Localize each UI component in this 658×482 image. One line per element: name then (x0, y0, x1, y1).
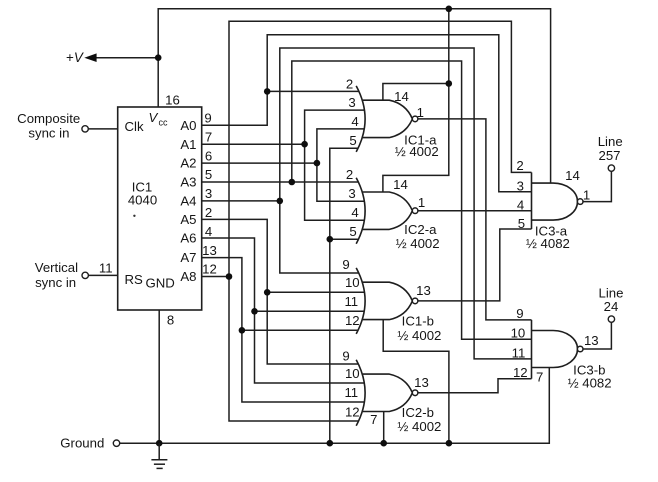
svg-text:7: 7 (370, 412, 377, 427)
ground symbol (151, 443, 167, 468)
svg-text:5: 5 (205, 167, 212, 182)
AND gate IC3-a (532, 183, 578, 220)
svg-text:½ 4002: ½ 4002 (397, 328, 441, 343)
svg-text:GND: GND (145, 276, 174, 291)
svg-text:3: 3 (205, 186, 212, 201)
svg-text:10: 10 (345, 275, 360, 290)
op-amp U: NOR gate IC1-a (356, 86, 365, 152)
wire +V rail: Vcc pin 16 riser, top rail, drop to IC3-a pin 14 (158, 9, 550, 183)
wire net A2: pin 6 to riser (202, 162, 317, 164)
svg-text:14: 14 (393, 177, 408, 192)
AND gate IC3-b (532, 331, 578, 368)
svg-text:A5: A5 (180, 212, 196, 227)
svg-text:A2: A2 (180, 156, 196, 171)
wire net A8: riser to rail, drop to IC3-a input 2; drop to IC2-b input 12 (229, 21, 532, 421)
wire net A7 branch to IC1-b input 12 (242, 329, 359, 331)
svg-text:2: 2 (346, 167, 353, 182)
terminal Ground (113, 440, 119, 446)
svg-text:V: V (149, 110, 159, 125)
svg-text:3: 3 (348, 95, 355, 110)
svg-text:257: 257 (598, 148, 620, 163)
svg-text:5: 5 (349, 224, 356, 239)
wire IC3-b output pin 13 to Line 24 terminal (583, 322, 611, 349)
svg-text:RS: RS (125, 272, 144, 287)
svg-text:4: 4 (205, 224, 212, 239)
svg-text:1: 1 (418, 195, 425, 210)
node junction VDD at IC1-a pin 14 (446, 80, 453, 87)
svg-text:6: 6 (205, 148, 212, 163)
svg-text:14: 14 (565, 168, 580, 183)
svg-text:Line: Line (598, 134, 623, 149)
svg-text:3: 3 (517, 178, 524, 193)
svg-text:5: 5 (518, 216, 525, 231)
wire net A5: pin 2, drop to IC2-b input 9 (202, 219, 359, 364)
svg-text:IC2-a: IC2-a (404, 222, 437, 237)
svg-text:A3: A3 (180, 175, 196, 190)
node junction ground bus / IC2-b pin 7 (380, 440, 387, 447)
svg-text:1: 1 (583, 188, 590, 203)
svg-text:13: 13 (584, 333, 599, 348)
node junction A1 (301, 141, 308, 148)
svg-text:12: 12 (345, 313, 360, 328)
svg-text:4: 4 (351, 205, 358, 220)
svg-text:2: 2 (346, 76, 353, 91)
svg-text:+V: +V (66, 50, 84, 65)
svg-text:3: 3 (348, 186, 355, 201)
svg-text:1: 1 (417, 105, 424, 120)
terminal Vertical sync in (82, 272, 88, 278)
svg-text:7: 7 (205, 129, 212, 144)
svg-text:8: 8 (167, 313, 174, 328)
wire net A3 riser, rail, drop to IC3-b input 10 (292, 61, 532, 339)
wire IC1-a pin 14 stub (383, 84, 449, 101)
wire net A4: pin 3 (202, 200, 280, 202)
svg-text:Composite: Composite (17, 111, 80, 126)
wire IC1-b pin 7 ground stub (383, 320, 449, 444)
wire Composite sync in to Clk (88, 128, 117, 130)
svg-text:Ground: Ground (60, 435, 104, 450)
wire net A1 riser: IC1-a input 3 down to IC2-a input 4 (305, 110, 365, 220)
svg-text:12: 12 (202, 262, 217, 277)
svg-text:16: 16 (165, 93, 180, 108)
svg-text:4: 4 (517, 198, 524, 213)
node junction A2 (314, 160, 321, 167)
svg-text:13: 13 (416, 283, 431, 298)
svg-text:9: 9 (342, 257, 349, 272)
wire net A4 riser, rail, drop to IC3-b input 11 (280, 48, 532, 359)
svg-text:A0: A0 (180, 118, 196, 133)
wire net A1: pin 7 to riser (202, 143, 305, 145)
wire net A0: pin 9, riser, rail, drop to IC3-a input 3 (202, 35, 532, 192)
node junction A8 (226, 273, 233, 280)
wire IC3-a output pin 1 to Line 257 terminal (583, 171, 611, 201)
wire net A2 riser: IC1-a input 4 down to IC2-a input 3 (317, 129, 365, 201)
terminal Line 24 (608, 316, 614, 322)
wire IC1 GND pin 8 stub (158, 310, 160, 443)
svg-text:A6: A6 (180, 231, 196, 246)
svg-text:13: 13 (202, 243, 217, 258)
wire net A6 branch to IC1-b input 11 (255, 310, 365, 312)
svg-text:½ 4002: ½ 4002 (396, 236, 440, 251)
wire net A8: pin 12 (202, 276, 229, 278)
wire +V arrow lead (93, 57, 158, 59)
node junction VDD at top rail (446, 6, 453, 13)
wire IC1-a output pin 1 to IC3-b input 9 (418, 119, 532, 320)
svg-text:9: 9 (204, 110, 211, 125)
svg-text:IC1-b: IC1-b (402, 314, 434, 329)
wire net A7: pin 13, drop to IC2-b input 11 (202, 258, 365, 402)
NOR gate IC2-a (356, 178, 365, 244)
svg-text:11: 11 (512, 346, 526, 361)
node junction A7 (239, 327, 246, 334)
svg-text:11: 11 (99, 261, 113, 276)
stray scan speck (133, 215, 135, 217)
NOR gate IC1-b (356, 268, 365, 334)
wire ground riser to IC1-a input 5 (330, 148, 359, 443)
svg-text:½ 4002: ½ 4002 (395, 144, 439, 159)
node junction ground bus / input-5 riser (327, 440, 334, 447)
wire net A0 branch to IC1-a input 2 (267, 90, 358, 92)
svg-text:12: 12 (513, 365, 528, 380)
node junction ground / IC2-a input 5 (327, 236, 334, 243)
wire net A5 branch to IC1-b input 10 (267, 291, 364, 293)
svg-text:12: 12 (345, 404, 360, 419)
node junction A4 (277, 198, 284, 205)
svg-text:2: 2 (516, 158, 523, 173)
svg-text:½ 4002: ½ 4002 (397, 419, 441, 434)
wire IC1-b output pin 13 to IC3-a input 5 (418, 229, 532, 301)
svg-text:A1: A1 (180, 137, 196, 152)
wire net A4 branch down to IC1-b input 9 (280, 201, 359, 273)
svg-text:Vertical: Vertical (35, 260, 78, 275)
svg-text:sync in: sync in (28, 125, 69, 140)
node +V tap junction (155, 54, 162, 61)
svg-text:A7: A7 (180, 250, 196, 265)
node junction ground bus / IC1-b pin 7 (446, 440, 453, 447)
node junction A0 / IC1-a input 2 (264, 88, 271, 95)
wire ground branch to IC2-a input 5 (330, 238, 359, 240)
svg-text:A8: A8 (180, 269, 196, 284)
svg-text:14: 14 (394, 89, 409, 104)
svg-text:9: 9 (516, 306, 523, 321)
svg-text:½ 4082: ½ 4082 (526, 236, 570, 251)
NOR gate IC2-b (356, 360, 365, 426)
node junction A5 (264, 289, 271, 296)
wire net A3: pin 5 straight to IC2-a input 2 (202, 181, 359, 183)
wire Vertical sync in to RS pin 11 (89, 274, 118, 276)
svg-text:24: 24 (604, 299, 619, 314)
svg-text:A4: A4 (180, 194, 196, 209)
node junction ground bus / pin 8 stub (156, 440, 163, 447)
node junction A3 (289, 179, 296, 186)
wire IC2-b output pin 13 to IC3-b input 12 (418, 379, 532, 393)
svg-text:IC2-b: IC2-b (402, 405, 434, 420)
+V arrowhead (84, 53, 96, 62)
svg-text:sync in: sync in (35, 275, 76, 290)
terminal Composite sync in (82, 126, 88, 132)
wire net A6: pin 4, drop to IC2-b input 10 (202, 238, 365, 383)
svg-text:4: 4 (351, 114, 358, 129)
svg-text:11: 11 (344, 385, 358, 400)
wire IC2-a output pin 1 to IC3-a input 4 (418, 210, 532, 212)
svg-text:7: 7 (536, 370, 543, 385)
svg-text:13: 13 (414, 375, 429, 390)
svg-text:4040: 4040 (128, 193, 157, 208)
node junction A6 (251, 308, 258, 315)
wire IC2-b pin 7 ground stub (383, 412, 385, 444)
wire ground bus (120, 368, 550, 444)
svg-text:2: 2 (205, 205, 212, 220)
terminal Line 257 (608, 165, 614, 171)
svg-text:cc: cc (159, 118, 169, 128)
svg-text:½ 4082: ½ 4082 (568, 375, 612, 390)
svg-text:Clk: Clk (125, 119, 144, 134)
IC1 4040 counter body (118, 107, 202, 310)
svg-text:10: 10 (345, 366, 360, 381)
wire VDD drop to IC2-a pin 14 (383, 9, 449, 192)
svg-text:9: 9 (342, 348, 349, 363)
svg-text:10: 10 (511, 325, 526, 340)
svg-text:11: 11 (344, 294, 358, 309)
svg-text:5: 5 (349, 133, 356, 148)
